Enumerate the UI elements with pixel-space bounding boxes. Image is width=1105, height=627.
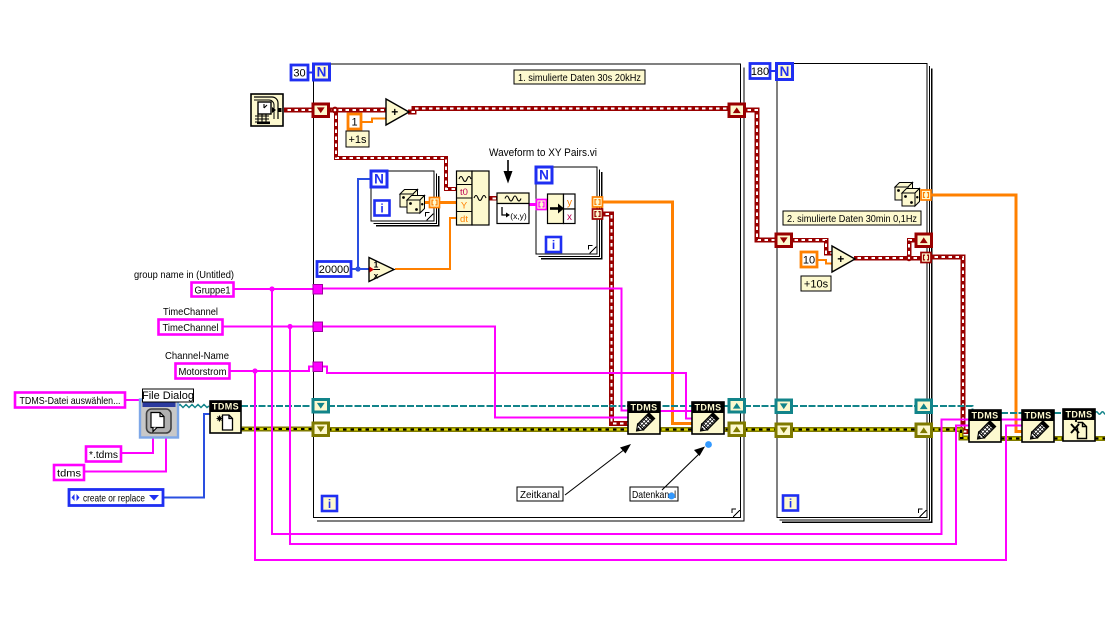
- loop2 count 180 constant: [750, 64, 770, 79]
- Build Waveform node: [457, 171, 490, 225]
- wire timestamp from loop1 right SR to loop2 left SR: [744, 110, 776, 240]
- loop2 left shift register (tdms refnum): [776, 400, 792, 413]
- svg-text:Zeitkanal: Zeitkanal: [520, 489, 560, 501]
- blue probe dot near TDMS Write 2: [705, 441, 712, 448]
- label 1. simulierte Daten 30s 20kHz: [514, 70, 645, 84]
- dice random number icon in inner loop A: [400, 190, 418, 208]
- svg-text:+: +: [391, 105, 398, 119]
- svg-text:N: N: [317, 65, 327, 80]
- svg-text:i: i: [789, 497, 792, 511]
- wire tdms refnum between loops: [744, 405, 776, 407]
- unbundle xy node in loop B: [548, 194, 576, 224]
- wire string Motorstrom inside loop1 to TDMS Write2 channel input: [322, 367, 692, 419]
- wire timestamp branch down to Build Waveform t0: [336, 112, 457, 189]
- junction Motorstrom wire: [252, 368, 257, 373]
- label +1s: [346, 131, 369, 147]
- for loop 1 (30 iterations) frame: [314, 64, 745, 521]
- wire file path from File Dialog to TDMS Open: [178, 405, 209, 408]
- svg-text:TimeChannel: TimeChannel: [163, 306, 218, 318]
- wire y array from inner loop B to TDMS Write 2 data input: [602, 202, 692, 424]
- add node 1 (+): [386, 99, 409, 125]
- svg-text:1: 1: [351, 116, 357, 128]
- loop1 tunnel TimeChannel: [313, 322, 323, 332]
- inner loop B y output tunnel: [593, 197, 603, 207]
- svg-text:x: x: [567, 212, 572, 223]
- TDMS Close node: [1063, 409, 1095, 441]
- svg-text:dt: dt: [460, 214, 468, 225]
- svg-text:TimeChannel: TimeChannel: [163, 322, 219, 334]
- wire string Gruppe1 inside loop1 to TDMS Write1 group input: [322, 289, 628, 411]
- svg-text:+: +: [837, 252, 844, 266]
- wire waveform from Build Waveform to Waveform to XY Pairs: [489, 196, 497, 200]
- File Dialog express vi: [140, 400, 178, 438]
- label File Dialog: [142, 389, 194, 402]
- wire error cluster inside loop1: [328, 427, 729, 432]
- wire error cluster between loops: [744, 427, 776, 432]
- wire string Motorstrom down and around bottom to TDMS Write4 channel input: [255, 371, 1022, 560]
- wire timestamp loop1 main run to add: [328, 108, 387, 113]
- wire xy cluster array from Waveform-to-XY to inner loop B: [529, 203, 537, 206]
- blue probe dot on Datenkanal label: [668, 493, 675, 500]
- wire xy cluster inside loop B: [546, 203, 552, 206]
- wire error cluster TDMS Open to loop1 left SR: [241, 427, 313, 432]
- svg-text:x: x: [374, 271, 379, 281]
- wire random array from loop2 dice to TDMS Write 4 data input: [931, 195, 1022, 432]
- svg-text:TDMS: TDMS: [1024, 410, 1051, 420]
- wire add2 to loop2 right shift register: [909, 240, 916, 258]
- wire tdms refnum inside loop1: [328, 405, 729, 407]
- svg-text:create or replace: create or replace: [83, 493, 145, 505]
- wire tdms refnum inside loop2: [791, 405, 916, 407]
- junction on add2 output wire: [906, 255, 912, 261]
- TDMS Write 4 node: [1022, 410, 1054, 442]
- TDMS Write 1 node (Zeitkanal): [628, 402, 660, 434]
- loop1 right shift register (tdms refnum): [729, 400, 745, 413]
- wire timestamp from Get Date/Time to loop1 left shift register: [284, 108, 313, 113]
- loop1 right shift register (timestamp): [729, 104, 745, 117]
- wire error cluster between right TDMS nodes: [1001, 436, 1022, 441]
- Get Date/Time In Seconds node: [251, 94, 283, 126]
- wire random array from inner loop A to Build Waveform Y: [424, 201, 457, 204]
- svg-text:Gruppe1: Gruppe1: [195, 284, 231, 296]
- TDMS Write 2 node (Datenkanal): [692, 402, 724, 434]
- wire string TDMS-Datei auswaehlen prompt to File Dialog: [125, 399, 141, 401]
- svg-text:i: i: [552, 238, 555, 252]
- wire add2 output run: [854, 256, 921, 261]
- wire i32 180 to loop2 N: [770, 70, 777, 72]
- inner loop B N terminal: [536, 167, 552, 183]
- wire string tdms to File Dialog: [84, 437, 166, 472]
- wire timestamp loop2 SR to add2: [791, 240, 832, 253]
- wire string Gruppe1 down and around bottom to TDMS Write3: [272, 289, 969, 534]
- svg-text:20000: 20000: [319, 264, 350, 276]
- junction TimeChannel wire: [287, 324, 292, 329]
- loop2 N terminal: [777, 64, 793, 80]
- wire string TimeChannel inside loop1 to TDMS Write1 channel input: [322, 327, 628, 418]
- TDMS Open node: [210, 401, 241, 433]
- wire string *.tdms pattern to File Dialog: [121, 437, 153, 453]
- svg-text:2. simulierte Daten 30min 0,1H: 2. simulierte Daten 30min 0,1Hz: [787, 213, 917, 225]
- wire string Gruppe1 to loop1 tunnel: [233, 288, 313, 290]
- label Datenkanal with arrow to TDMS Write 2: [630, 487, 678, 501]
- DBL constant 10: [801, 252, 817, 267]
- inner for loop A (random data 20000) frame: [371, 171, 439, 226]
- wire x array from inner loop B tunnel down to TDMS Write 1 data input: [602, 214, 628, 424]
- svg-text:(x,y): (x,y): [510, 211, 527, 221]
- wire dt from reciprocal to Build Waveform dt: [395, 218, 457, 269]
- wire tdms refnum loop2 to TDMS Write 3: [931, 406, 973, 412]
- inner loop A N terminal: [371, 171, 387, 187]
- wire string TimeChannel down and around bottom to TDMS Write3 channel input: [290, 327, 969, 545]
- wire string Motorstrom to loop1 tunnel: [229, 367, 313, 372]
- junction on 20000 wire: [355, 266, 360, 271]
- svg-text:*.tdms: *.tdms: [89, 449, 118, 461]
- svg-text:y: y: [567, 198, 572, 209]
- loop1 right shift register (error): [729, 423, 745, 436]
- i32 constant 20000: [317, 262, 351, 277]
- loop1 left shift register (tdms refnum): [313, 400, 329, 413]
- loop1 left shift register (timestamp): [313, 104, 329, 117]
- loop2 output tunnel (timestamp array): [921, 253, 931, 263]
- inner loop A output tunnel: [430, 198, 440, 208]
- string constant TimeChannel: [159, 320, 223, 335]
- dice random number icon in loop2: [895, 183, 913, 201]
- label Zeitkanal with arrow to TDMS Write 1: [517, 487, 563, 501]
- junction Gruppe1 wire: [269, 286, 274, 291]
- label +10s: [801, 276, 831, 291]
- wire DBL 10 constant to add2: [817, 260, 832, 264]
- svg-text:TDMS: TDMS: [971, 410, 998, 420]
- svg-text:Channel-Name: Channel-Name: [165, 350, 229, 362]
- svg-text:TDMS: TDMS: [630, 402, 657, 412]
- svg-text:+1s: +1s: [348, 134, 367, 146]
- string constant tdms: [54, 465, 84, 480]
- svg-text:t0: t0: [460, 187, 468, 198]
- svg-text:30: 30: [293, 67, 305, 79]
- add node 2 (+): [832, 246, 855, 272]
- svg-text:TDMS: TDMS: [694, 402, 721, 412]
- svg-text:TDMS-Datei auswählen...: TDMS-Datei auswählen...: [20, 395, 121, 407]
- string constant TDMS-Datei auswaehlen: [15, 393, 125, 408]
- svg-text:N: N: [539, 168, 549, 183]
- loop2 left shift register (error): [776, 424, 792, 437]
- label 2. simulierte Daten 30min 0,1Hz: [783, 211, 921, 225]
- TDMS Write 3 node: [969, 410, 1001, 442]
- wire string group name TDMS Write1 to Write2: [660, 410, 692, 412]
- loop2 left shift register (timestamp): [776, 234, 792, 247]
- string constant Gruppe1: [192, 283, 234, 297]
- wire timestamp array from loop2 tunnel to TDMS Write 3 data input: [931, 257, 969, 432]
- svg-text:Waveform to XY Pairs.vi: Waveform to XY Pairs.vi: [489, 147, 597, 159]
- loop1 count 30 constant: [291, 65, 308, 80]
- wire enum create-or-replace to TDMS Open operation input: [163, 414, 211, 498]
- wire error cluster inside loop2: [791, 427, 916, 432]
- string constant *.tdms: [86, 447, 121, 462]
- wire string TimeChannel to loop1 tunnel: [222, 325, 313, 327]
- svg-text:+10s: +10s: [804, 278, 829, 290]
- loop2 right shift register (tdms refnum): [916, 400, 932, 413]
- svg-text:Motorstrom: Motorstrom: [179, 366, 227, 378]
- loop1 i terminal: [322, 496, 337, 511]
- reciprocal node 1/x: [369, 258, 394, 282]
- wire tdms refnum TDMS Write3 to Write4 to Close and loose end: [1001, 412, 1022, 414]
- wire error cluster loop2 to TDMS Write 3: [931, 430, 969, 439]
- string constant Motorstrom: [176, 364, 230, 379]
- loop2 i terminal: [783, 496, 798, 511]
- inner loop B input tunnel (xy cluster): [537, 200, 547, 210]
- svg-text:10: 10: [803, 254, 815, 266]
- wire i32 30 to loop1 N: [308, 72, 314, 74]
- loop2 right shift register (error): [916, 424, 932, 437]
- for loop 2 (180 iterations) frame: [777, 64, 932, 523]
- svg-text:Y: Y: [461, 201, 468, 212]
- inner for loop B (xy unbundle) frame: [536, 167, 602, 259]
- loop1 left shift register (error): [313, 423, 329, 436]
- svg-text:File Dialog: File Dialog: [142, 390, 194, 402]
- loop2 right shift register (timestamp): [916, 234, 932, 247]
- wire string group name TDMS Write3 to Write4: [1001, 418, 1022, 420]
- wire DBL 1 constant to add1: [361, 119, 387, 123]
- loop1 N terminal: [314, 64, 330, 80]
- loop1 tunnel Gruppe1: [313, 285, 323, 295]
- inner loop A i terminal: [375, 201, 390, 216]
- svg-text:1: 1: [374, 260, 379, 270]
- wire i32 20000 to inner loop A count N and reciprocal: [351, 268, 370, 270]
- inner loop B i terminal: [546, 237, 561, 252]
- DBL constant 1: [348, 114, 361, 129]
- svg-text:TDMS: TDMS: [1065, 409, 1092, 419]
- wire from add1 output to loop1 right shift register: [408, 109, 729, 113]
- svg-text:N: N: [374, 172, 384, 187]
- svg-text:180: 180: [751, 66, 769, 78]
- svg-text:TDMS: TDMS: [212, 401, 239, 411]
- enum constant create or replace: [69, 490, 163, 506]
- Waveform to XY Pairs vi node: [497, 193, 529, 224]
- inner loop B x output tunnel: [593, 209, 603, 219]
- svg-text:N: N: [780, 64, 790, 79]
- loop1 tunnel Motorstrom: [313, 362, 323, 372]
- loop2 dice output tunnel: [921, 190, 931, 200]
- svg-text:group name in (Untitled): group name in (Untitled): [134, 269, 234, 281]
- svg-text:i: i: [328, 497, 331, 511]
- svg-text:1. simulierte Daten 30s 20kHz: 1. simulierte Daten 30s 20kHz: [518, 72, 641, 84]
- wire tdms refnum TDMS Open to loop1 left SR: [241, 405, 313, 407]
- svg-text:tdms: tdms: [57, 467, 81, 479]
- svg-text:i: i: [380, 202, 383, 216]
- junction on timestamp wire: [332, 107, 339, 114]
